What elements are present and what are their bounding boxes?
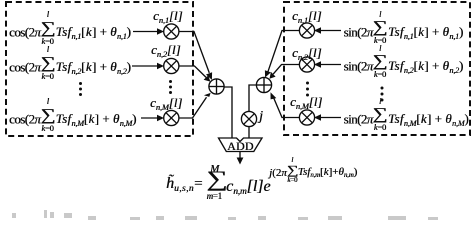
multiplier M5	[299, 57, 314, 72]
equation exponent	[269, 160, 357, 187]
wire: S2 output to j multiplier	[249, 85, 256, 111]
multiplier M6	[299, 110, 314, 125]
equation c_nm[l]e	[226, 178, 271, 196]
adder S2	[256, 77, 271, 92]
wire: arrow into multiplier M4	[314, 27, 341, 33]
label cos expression row 1	[9, 16, 131, 51]
wire: M1 to adder S1	[179, 32, 212, 80]
label coefficient c_n1 right	[292, 8, 322, 24]
label coefficient c_nM right	[290, 94, 322, 110]
wire: M2 to adder S1	[179, 66, 210, 82]
equation equals	[194, 176, 202, 193]
wire: arrow into multiplier M6	[314, 114, 341, 120]
label cos expression row 2	[9, 51, 131, 86]
multiplier M7 (j)	[241, 111, 256, 126]
vertical dots left multiplier column	[169, 80, 172, 94]
dashed box left	[6, 2, 193, 136]
equation big sigma	[209, 168, 225, 190]
wire: S1 output to ADD	[224, 87, 232, 138]
wire: j multiplier to ADD	[248, 127, 250, 138]
wire: M5 to adder S2	[270, 65, 300, 79]
label coefficient c_n2 right	[292, 45, 322, 61]
wire: M6 to adder S2	[271, 92, 300, 117]
faint caption remnants at bottom	[12, 210, 438, 220]
ADD block	[219, 138, 263, 152]
adder S1	[209, 79, 224, 94]
equation big sigma upper limit M	[210, 164, 219, 175]
multiplier M2	[164, 58, 179, 73]
label sin expression row 1	[344, 16, 464, 51]
wire: arrow into multiplier M3	[141, 115, 164, 121]
label sin expression row 2	[344, 50, 464, 85]
label coefficient c_n2 left	[151, 42, 181, 58]
label coefficient c_n1 left	[153, 8, 183, 24]
vertical dots right text column	[381, 87, 384, 102]
wire: arrow into multiplier M5	[314, 61, 341, 67]
vertical dots left text column	[79, 82, 82, 96]
label ADD	[227, 139, 254, 154]
label cos expression row 3	[9, 103, 137, 138]
label coefficient c_nM left	[150, 95, 182, 111]
equation h tilde	[166, 175, 194, 193]
vertical dots right multiplier column	[306, 82, 309, 97]
dashed box right	[284, 2, 470, 135]
equation big sigma lower limit m=1	[207, 192, 222, 201]
multiplier M3	[164, 110, 179, 125]
wire: M4 to adder S2	[265, 31, 300, 78]
multiplier M1	[164, 24, 179, 39]
wire: arrow into multiplier M2	[132, 63, 164, 69]
wire: M3 to adder S1	[179, 93, 211, 118]
multiplier M4	[299, 23, 314, 38]
label sin expression row 3	[344, 103, 470, 138]
label j	[259, 109, 263, 125]
wire: arrow into multiplier M1	[133, 28, 164, 34]
wire: ADD output arrow	[237, 152, 244, 165]
